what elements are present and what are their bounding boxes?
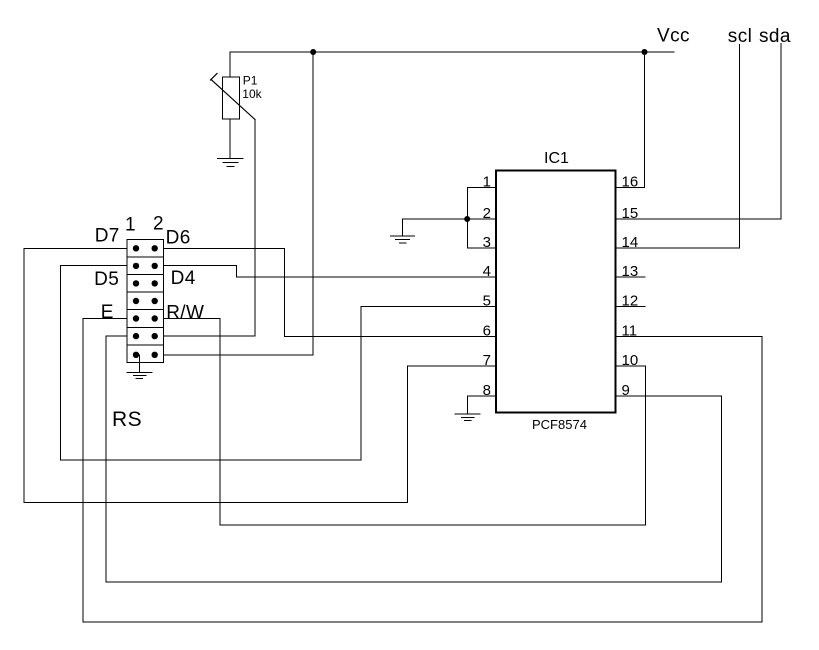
svg-text:3: 3 <box>483 234 491 251</box>
svg-text:9: 9 <box>622 382 630 399</box>
svg-text:7: 7 <box>483 352 491 369</box>
svg-text:P1: P1 <box>243 73 258 87</box>
svg-text:1: 1 <box>483 173 491 190</box>
svg-text:IC1: IC1 <box>544 150 569 167</box>
svg-text:D6: D6 <box>166 227 191 248</box>
svg-text:8: 8 <box>483 382 491 399</box>
svg-text:13: 13 <box>622 263 639 280</box>
svg-text:10: 10 <box>622 352 639 369</box>
svg-text:D7: D7 <box>95 225 120 246</box>
svg-text:15: 15 <box>622 205 639 222</box>
svg-text:10k: 10k <box>242 87 262 101</box>
svg-text:2: 2 <box>483 205 491 222</box>
svg-text:sda: sda <box>759 26 791 47</box>
svg-text:6: 6 <box>483 322 491 339</box>
svg-text:E: E <box>101 302 114 323</box>
svg-text:PCF8574: PCF8574 <box>532 417 587 432</box>
svg-text:RS: RS <box>112 408 142 431</box>
svg-text:5: 5 <box>483 293 491 310</box>
svg-text:R/W: R/W <box>166 302 204 323</box>
svg-text:Vcc: Vcc <box>657 26 690 47</box>
svg-text:14: 14 <box>622 234 639 251</box>
svg-text:D5: D5 <box>94 269 119 290</box>
svg-text:4: 4 <box>483 263 491 280</box>
svg-text:16: 16 <box>622 173 639 190</box>
svg-text:2: 2 <box>153 214 164 235</box>
svg-text:D4: D4 <box>171 268 196 289</box>
svg-text:scl: scl <box>728 26 752 47</box>
svg-text:12: 12 <box>622 293 639 310</box>
svg-text:11: 11 <box>622 322 638 339</box>
svg-text:1: 1 <box>125 214 136 235</box>
